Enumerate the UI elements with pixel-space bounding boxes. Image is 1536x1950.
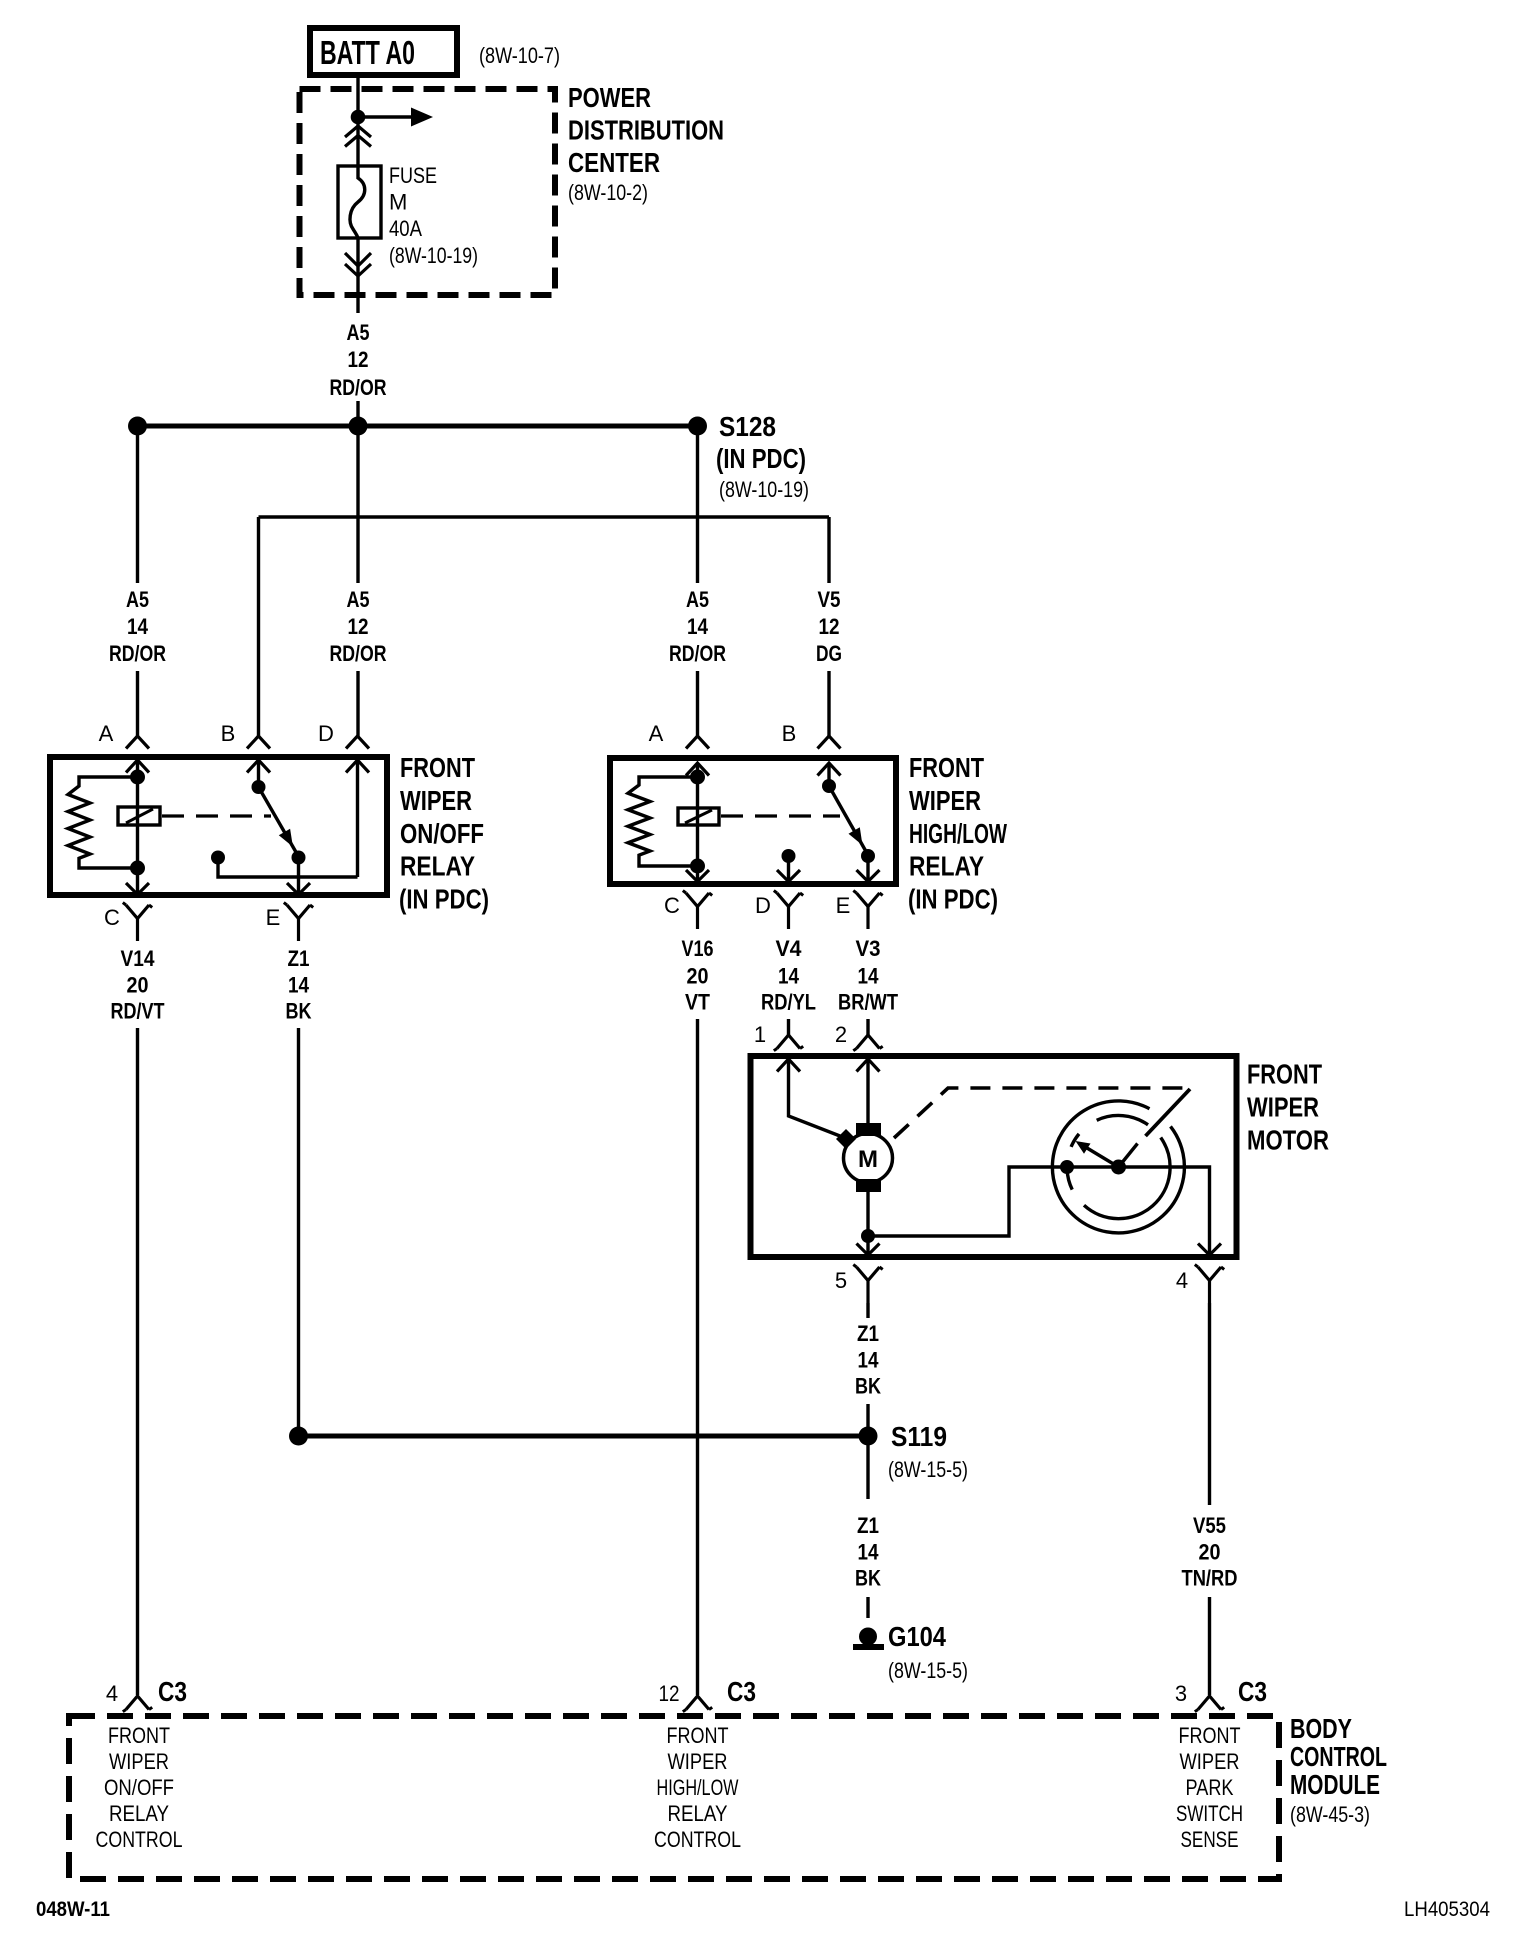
node: park switch contact: [1060, 1160, 1074, 1174]
wire: relay2 pin E to motor pin 2: [866, 1019, 869, 1035]
wire: relay1 coil branch: [136, 760, 139, 894]
splice bus S128: [138, 424, 698, 429]
pin C inline connector (relay2): [683, 891, 712, 929]
svg-text:S119: S119: [891, 1421, 947, 1452]
wire: S128 to relay1 pin D: [356, 426, 359, 736]
motor pin 2 inline connector: [853, 1035, 882, 1051]
BCM pin 3 inline connector: [1195, 1696, 1224, 1712]
wire: relay2 switch to pin E: [866, 856, 869, 881]
wire label A5 12 RD/OR (top): [330, 320, 387, 400]
svg-text:Z1: Z1: [857, 1321, 879, 1346]
pin label A (relay2): [649, 721, 664, 746]
sheet number 048W-11: [36, 1898, 110, 1921]
wire: pin 2 to motor terminal: [866, 1059, 869, 1124]
svg-text:WIPER: WIPER: [109, 1749, 169, 1774]
svg-text:ON/OFF: ON/OFF: [400, 818, 484, 849]
fuse M 40A: [338, 166, 381, 238]
pin D connector chevrons (relay1): [346, 736, 369, 773]
svg-text:BK: BK: [855, 1374, 881, 1399]
svg-text:Z1: Z1: [857, 1513, 879, 1538]
pin 5 inline connector: [853, 1265, 882, 1303]
svg-text:V14: V14: [121, 946, 156, 971]
svg-text:5: 5: [835, 1268, 847, 1293]
wire label Z1 14 BK (to ground): [855, 1513, 881, 1591]
node: PDC battery junction: [351, 110, 366, 125]
wire label V3 14 BR/WT: [838, 936, 898, 1015]
svg-text:MODULE: MODULE: [1290, 1769, 1380, 1800]
svg-text:LH405304: LH405304: [1404, 1898, 1490, 1921]
park switch inner ring top arc: [1097, 1115, 1148, 1124]
wire: park switch pivot to pin 4: [1119, 1167, 1210, 1254]
wire: relay2 pin C to BCM: [696, 1019, 699, 1695]
svg-text:POWER: POWER: [568, 82, 651, 113]
wire: tie line to relay1 pin B: [257, 517, 260, 736]
svg-text:(8W-45-3): (8W-45-3): [1290, 1802, 1370, 1827]
relay coil K2: [678, 808, 719, 825]
pin label 5 (motor): [835, 1268, 847, 1293]
relay coil K1: [118, 807, 160, 825]
svg-text:B: B: [782, 721, 797, 746]
wire: relay2 D contact stub: [787, 856, 790, 881]
pin E connector chevron (relay1): [287, 883, 310, 895]
BCM pin 12 inline connector: [683, 1696, 712, 1712]
motor top terminal: [856, 1123, 881, 1136]
svg-text:20: 20: [127, 973, 149, 998]
pin label 4 (BCM): [106, 1681, 118, 1706]
wire: A5 into splice: [356, 401, 359, 426]
svg-text:3: 3: [1175, 1681, 1187, 1706]
svg-text:C3: C3: [1238, 1676, 1267, 1707]
svg-text:RELAY: RELAY: [109, 1801, 169, 1826]
pin A connector chevrons (relay2): [686, 736, 709, 776]
svg-text:BK: BK: [855, 1566, 881, 1591]
pin C connector chevron (relay1): [126, 883, 149, 895]
svg-text:12: 12: [348, 614, 369, 639]
node: S128 middle: [349, 417, 368, 436]
dashed actuation link (relay1): [162, 814, 271, 817]
svg-text:M: M: [389, 190, 407, 215]
svg-text:2: 2: [835, 1022, 847, 1047]
park switch inner ring left arc: [1067, 1170, 1072, 1190]
pin label B (relay2): [782, 721, 797, 746]
wire label Z1 14 BK (relay1 E): [286, 946, 312, 1024]
svg-text:A: A: [99, 721, 114, 746]
svg-text:MOTOR: MOTOR: [1247, 1125, 1329, 1156]
svg-text:CENTER: CENTER: [568, 147, 660, 178]
node: relay1 switch throw NO: [292, 851, 306, 865]
svg-text:V16: V16: [682, 936, 714, 961]
svg-text:DG: DG: [816, 641, 842, 666]
svg-text:A5: A5: [347, 587, 370, 612]
node: S119 left: [289, 1427, 308, 1446]
pin label B (relay1): [221, 721, 236, 746]
arrow: feed to other circuits: [358, 108, 433, 127]
pin 4 inline connector: [1195, 1265, 1224, 1303]
BCM input label: front wiper high/low relay control: [654, 1723, 741, 1852]
svg-text:12: 12: [819, 614, 840, 639]
pin label 12 (BCM): [659, 1681, 680, 1706]
svg-text:FRONT: FRONT: [108, 1723, 170, 1748]
svg-text:14: 14: [858, 1348, 880, 1373]
connector label C3 (right): [1238, 1676, 1267, 1707]
svg-text:M: M: [858, 1146, 878, 1173]
node: relay2 pin D contact: [782, 849, 796, 863]
svg-text:RELAY: RELAY: [668, 1801, 728, 1826]
svg-text:4: 4: [1176, 1268, 1188, 1293]
svg-text:12: 12: [348, 347, 369, 372]
svg-text:HIGH/LOW: HIGH/LOW: [909, 818, 1007, 849]
wire: motor pin 4 to BCM: [1208, 1303, 1211, 1505]
svg-text:SWITCH: SWITCH: [1176, 1801, 1243, 1826]
wire: S119 to ground label: [866, 1436, 869, 1499]
svg-text:C3: C3: [158, 1676, 187, 1707]
svg-text:E: E: [836, 893, 851, 918]
svg-text:BODY: BODY: [1290, 1713, 1352, 1744]
wire: battery to fuse: [356, 78, 359, 166]
svg-text:RELAY: RELAY: [909, 851, 984, 882]
motor name FRONT WIPER MOTOR: [1247, 1059, 1329, 1156]
BCM pin 4 inline connector: [123, 1696, 152, 1712]
svg-text:ON/OFF: ON/OFF: [104, 1775, 174, 1800]
wire: relay2 coil branch: [696, 763, 699, 881]
relay1 name FRONT WIPER ON/OFF RELAY (IN PDC): [399, 752, 489, 915]
pin label E (relay2): [836, 893, 851, 918]
svg-text:FRONT: FRONT: [1247, 1059, 1322, 1090]
pin label D (relay1): [318, 721, 334, 746]
svg-text:E: E: [266, 905, 281, 930]
park switch inner ring main arc: [1084, 1138, 1170, 1219]
resistor (relay1 coil suppression): [68, 777, 138, 868]
wire: to ground G104: [866, 1597, 869, 1618]
svg-text:CONTROL: CONTROL: [96, 1827, 183, 1852]
Power Distribution Center dashed box: [300, 89, 556, 295]
svg-text:TN/RD: TN/RD: [1182, 1566, 1238, 1591]
BCM name BODY CONTROL MODULE (8W-45-3): [1290, 1713, 1387, 1827]
BCM input label: front wiper park switch sense: [1176, 1723, 1243, 1852]
pin A connector chevrons (relay1): [126, 736, 149, 773]
svg-text:SENSE: SENSE: [1181, 1827, 1239, 1852]
wire: S128 to relay1 pin A: [136, 426, 139, 736]
dashed actuation link (park switch): [894, 1088, 1190, 1138]
pin label 2 (motor): [835, 1022, 847, 1047]
svg-text:A: A: [649, 721, 664, 746]
svg-text:S128: S128: [719, 411, 776, 442]
motor bottom terminal: [856, 1179, 881, 1192]
node: relay1 switch common: [252, 780, 266, 794]
splice bus S119: [299, 1434, 869, 1439]
connector chevrons on battery feed: [345, 126, 371, 147]
wire: relay2 pin B to switch: [827, 763, 830, 786]
svg-text:Z1: Z1: [288, 946, 310, 971]
wire: fuse output A5: [356, 238, 359, 313]
svg-text:G104: G104: [888, 1621, 946, 1652]
wire: tie line to relay2 pin B: [827, 517, 830, 736]
svg-text:CONTROL: CONTROL: [1290, 1741, 1387, 1772]
pin D inline connector (relay2): [774, 891, 803, 929]
pin B connector chevrons (relay2): [818, 736, 841, 776]
wire: relay B tie line: [259, 515, 830, 518]
connector label C3 (middle): [727, 1676, 756, 1707]
park switch outer ring: [1052, 1101, 1184, 1233]
svg-text:14: 14: [687, 614, 709, 639]
svg-text:HIGH/LOW: HIGH/LOW: [657, 1775, 739, 1800]
battery feed BATT A0: [310, 28, 457, 75]
wire label A5 12 RD/OR (relay1 D): [330, 587, 387, 666]
wire: relay1 switch to pin E: [297, 858, 300, 895]
svg-text:048W-11: 048W-11: [36, 1898, 110, 1921]
svg-text:V3: V3: [856, 936, 881, 961]
pin 1 connector chevron (motor): [777, 1059, 800, 1072]
pin B connector chevrons (relay1): [247, 736, 270, 773]
ground G104: [853, 1628, 884, 1648]
svg-text:WIPER: WIPER: [668, 1749, 728, 1774]
pin label A (relay1): [99, 721, 114, 746]
svg-text:WIPER: WIPER: [909, 785, 981, 816]
BCM input label: front wiper on/off relay control: [96, 1723, 183, 1852]
pin E inline connector (relay1): [284, 903, 313, 941]
svg-text:RD/OR: RD/OR: [330, 641, 387, 666]
svg-text:DISTRIBUTION: DISTRIBUTION: [568, 115, 724, 146]
svg-text:(8W-10-19): (8W-10-19): [719, 477, 809, 502]
pin label 4 (motor): [1176, 1268, 1188, 1293]
wire label V14 20 RD/VT: [111, 946, 165, 1024]
svg-text:(8W-10-7): (8W-10-7): [479, 43, 560, 68]
pin E inline connector (relay2): [853, 891, 882, 929]
park switch second arm: [1119, 1144, 1138, 1168]
wire: motor to pin 5: [866, 1192, 869, 1254]
svg-text:RD/OR: RD/OR: [109, 641, 166, 666]
wire label V55 20 TN/RD: [1182, 1513, 1238, 1591]
pin C connector chevron (relay2): [686, 870, 709, 882]
wire: relay1 pin B to switch: [257, 760, 260, 787]
motor pin 1 inline connector: [774, 1035, 803, 1051]
fuse value label FUSE M 40A (8W-10-19): [389, 163, 478, 268]
svg-text:FRONT: FRONT: [909, 752, 984, 783]
svg-text:14: 14: [127, 614, 149, 639]
node: park switch pivot: [1111, 1160, 1126, 1175]
pin label 3 (BCM): [1175, 1681, 1187, 1706]
svg-text:D: D: [755, 893, 771, 918]
wire label V4 14 RD/YL: [761, 936, 816, 1015]
svg-text:C3: C3: [727, 1676, 756, 1707]
svg-text:14: 14: [858, 1540, 880, 1565]
node: relay1 coil bottom: [130, 861, 145, 876]
resistor (relay2 coil suppression): [628, 777, 698, 866]
svg-text:A5: A5: [686, 587, 709, 612]
svg-text:RD/YL: RD/YL: [761, 990, 816, 1015]
wire label A5 14 RD/OR (relay2 A): [669, 587, 726, 666]
svg-text:RD/VT: RD/VT: [111, 999, 165, 1024]
svg-text:WIPER: WIPER: [400, 785, 472, 816]
svg-text:B: B: [221, 721, 236, 746]
svg-text:(8W-10-2): (8W-10-2): [568, 180, 648, 205]
svg-text:FRONT: FRONT: [1179, 1723, 1241, 1748]
svg-text:FRONT: FRONT: [400, 752, 475, 783]
svg-text:RELAY: RELAY: [400, 851, 475, 882]
wire: V55 continues to BCM: [1208, 1597, 1211, 1695]
pin 5 connector chevron (motor): [857, 1244, 880, 1256]
pin D connector chevron (relay2): [777, 870, 800, 882]
pin 4 connector chevron (motor): [1198, 1244, 1221, 1256]
svg-text:BATT A0: BATT A0: [320, 34, 415, 71]
motor M1 armature: [844, 1134, 893, 1183]
svg-text:V55: V55: [1193, 1513, 1226, 1538]
pin label C (relay2): [664, 893, 680, 918]
svg-text:V4: V4: [776, 936, 803, 961]
svg-text:20: 20: [1199, 1540, 1221, 1565]
wire label V5 12 DG (relay2 B): [816, 587, 842, 666]
splice label S128 (IN PDC) (8W-10-19): [716, 411, 809, 502]
front wiper motor box: [751, 1056, 1237, 1257]
svg-text:D: D: [318, 721, 334, 746]
node: motor ground junction: [861, 1229, 875, 1243]
node: S128 left: [128, 417, 147, 436]
wire label V16 20 VT: [682, 936, 714, 1015]
wire: S128 to relay2 pin A: [696, 426, 699, 736]
relay2 name FRONT WIPER HIGH/LOW RELAY (IN PDC): [908, 752, 1007, 915]
node: relay1 coil top: [130, 770, 145, 785]
wire: relay1 pin C to BCM: [136, 1028, 139, 1695]
switch arm (relay1): [259, 787, 299, 857]
svg-text:BK: BK: [286, 999, 312, 1024]
pin 2 connector chevron (motor): [857, 1059, 880, 1072]
pin label 1 (motor): [754, 1022, 766, 1047]
svg-text:FRONT: FRONT: [667, 1723, 729, 1748]
svg-text:WIPER: WIPER: [1180, 1749, 1240, 1774]
svg-text:VT: VT: [685, 990, 710, 1015]
motor brush terminal (diamond): [836, 1129, 856, 1149]
wire: pin 1 to motor brush: [789, 1059, 841, 1136]
node: relay1 switch throw NC: [211, 851, 225, 865]
svg-text:C: C: [104, 905, 120, 930]
svg-text:RD/OR: RD/OR: [330, 375, 387, 400]
drawing number LH405304: [1404, 1898, 1490, 1921]
ground label G104 (8W-15-5): [888, 1621, 968, 1683]
splice label S119 (8W-15-5): [888, 1421, 968, 1482]
pin label E (relay1): [266, 905, 281, 930]
svg-text:14: 14: [858, 964, 880, 989]
svg-text:BR/WT: BR/WT: [838, 990, 898, 1015]
svg-text:A5: A5: [126, 587, 149, 612]
wire: into splice S119: [866, 1404, 869, 1436]
connector label C3 (left): [158, 1676, 187, 1707]
wire: relay2 pin D to motor pin 1: [787, 1019, 790, 1035]
node: S128 right: [688, 417, 707, 436]
svg-text:(8W-15-5): (8W-15-5): [888, 1658, 968, 1683]
wire: relay1 pin E to splice S119: [297, 1028, 300, 1436]
node: S119 right: [859, 1427, 878, 1446]
connector chevrons below fuse: [345, 253, 371, 276]
park switch wiper arm with arrow: [1076, 1141, 1119, 1167]
wire: motor pin 5 down: [866, 1303, 869, 1318]
wire label Z1 14 BK (motor ground): [855, 1321, 881, 1399]
wire: junction to park contact: [868, 1167, 1119, 1236]
svg-text:40A: 40A: [389, 216, 422, 241]
park switch inner ring upper-left arc: [1071, 1134, 1079, 1147]
svg-text:CONTROL: CONTROL: [654, 1827, 741, 1852]
switch arm (relay2): [829, 786, 868, 855]
svg-text:(IN PDC): (IN PDC): [716, 443, 806, 474]
svg-text:(8W-10-19): (8W-10-19): [389, 243, 478, 268]
Power Distribution Center name: [568, 82, 724, 205]
svg-text:(IN PDC): (IN PDC): [908, 884, 998, 915]
pin C inline connector (relay1): [123, 903, 152, 941]
reference label (8W-10-7): [479, 43, 560, 68]
pin label C (relay1): [104, 905, 120, 930]
svg-text:14: 14: [288, 973, 310, 998]
park switch actuator slash: [1146, 1089, 1191, 1136]
front wiper on/off relay box: [50, 757, 387, 895]
svg-text:A5: A5: [347, 320, 370, 345]
dashed actuation link (relay2): [721, 814, 840, 817]
body control module dashed box: [69, 1716, 1279, 1879]
front wiper high/low relay box: [610, 758, 896, 884]
svg-text:12: 12: [659, 1681, 680, 1706]
svg-text:FUSE: FUSE: [389, 163, 437, 188]
svg-text:4: 4: [106, 1681, 118, 1706]
node: relay2 switch common: [822, 779, 836, 793]
wire label A5 14 RD/OR (relay1 A): [109, 587, 166, 666]
svg-text:V5: V5: [818, 587, 841, 612]
svg-text:(IN PDC): (IN PDC): [399, 884, 489, 915]
svg-text:RD/OR: RD/OR: [669, 641, 726, 666]
svg-text:(8W-15-5): (8W-15-5): [888, 1457, 968, 1482]
pin label D (relay2): [755, 893, 771, 918]
pin E connector chevron (relay2): [857, 870, 880, 882]
svg-text:PARK: PARK: [1186, 1775, 1234, 1800]
svg-text:14: 14: [778, 964, 800, 989]
svg-text:WIPER: WIPER: [1247, 1092, 1319, 1123]
svg-text:C: C: [664, 893, 680, 918]
svg-text:20: 20: [687, 964, 709, 989]
node: relay2 coil bottom: [690, 859, 705, 874]
wire: relay1 NC contact to pin D: [218, 760, 358, 877]
node: relay2 coil top: [690, 770, 705, 785]
node: relay2 switch throw E: [861, 849, 875, 863]
svg-text:1: 1: [754, 1022, 766, 1047]
